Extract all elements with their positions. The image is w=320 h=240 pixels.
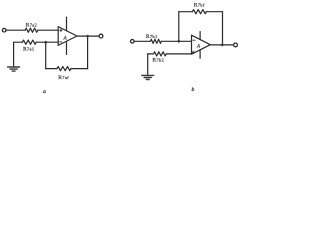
svg-text:R7b2: R7b2 [152,58,164,64]
node: junction b (inverting input) [177,40,180,43]
op-amp U2 (circuit b) [192,35,211,54]
wire: ground to R7b2 [148,53,154,55]
svg-text:R7a2: R7a2 [26,23,37,29]
wire: R7a1 to op-amp - input [36,41,58,43]
resistor R7b1 [150,39,161,43]
wire: ground riser b [147,54,149,75]
node: output terminal a [99,34,103,38]
wire: feedback top right b [206,11,222,13]
wire: input a to R7a2 [6,29,25,31]
wire: feedback left drop a [45,42,47,68]
svg-text:R7bf: R7bf [194,2,205,8]
wire: feedback top left b [179,11,193,13]
node: input terminal a [2,28,6,32]
resistor R7bf [192,10,206,14]
svg-text:A: A [62,35,67,41]
wire: op-amp b -V power lead [199,50,201,58]
wire: R7b1 to op-amp - input [161,40,191,42]
resistor R7a1 [22,40,36,44]
wire: ground to R7a1 [14,41,23,43]
wire: R7a2 to op-amp + input [38,29,58,31]
wire: op-amp a -V power lead [66,42,68,54]
node: output junction a [86,35,89,38]
resistor R7af [57,67,71,71]
wire: input b to R7b1 [134,40,150,42]
svg-text:R7a1: R7a1 [23,47,34,53]
wire: ground riser a [13,42,15,66]
node: input terminal b [131,40,135,44]
node: output junction b [221,44,224,47]
wire: op-amp b +V power lead [199,32,201,40]
pin -: op-amp a inverting mark [60,41,62,43]
pin -: op-amp b inverting mark [193,39,195,41]
wire: output b [210,44,233,46]
wire: op-amp a +V power lead [66,17,68,31]
wire: feedback riser b [178,12,180,42]
resistor R7b2 [154,52,167,56]
wire: R7b2 to op-amp + input [166,53,191,55]
wire: output a [77,35,99,37]
resistor R7a2 [25,28,38,32]
svg-text:a: a [43,89,46,95]
node: output terminal b [234,43,238,47]
wire: feedback right riser a [87,36,89,69]
svg-text:R7af: R7af [58,75,69,81]
ground (circuit a) [8,67,20,71]
wire: feedback right drop b [222,12,224,45]
svg-text:A: A [196,43,201,49]
pin +: op-amp b non-inverting mark [192,51,194,53]
ground (circuit b) [142,75,154,79]
svg-text:b: b [192,87,195,93]
wire: feedback bottom right a [71,68,88,70]
node: junction a (inverting input) [44,41,47,44]
op-amp U1 (circuit a) [58,27,77,46]
wire: feedback bottom left a [46,68,57,70]
pin +: op-amp a non-inverting mark [60,29,62,31]
